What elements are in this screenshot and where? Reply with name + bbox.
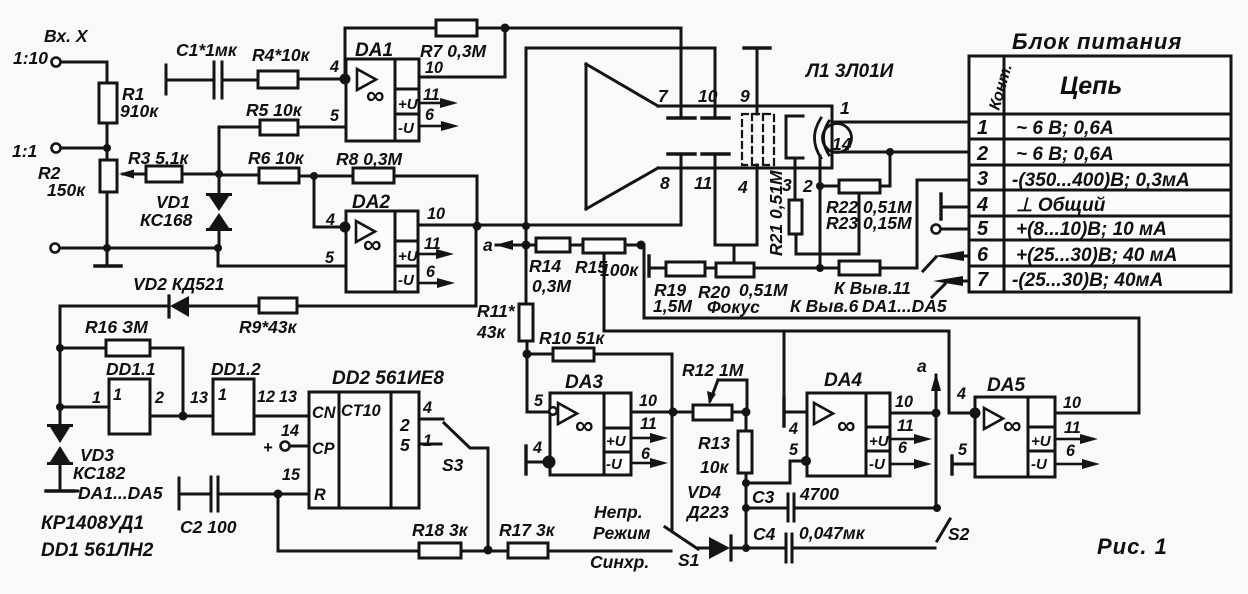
svg-text:Вх. Х: Вх. Х	[44, 26, 89, 46]
svg-text:-U: -U	[1031, 456, 1048, 473]
svg-text:3: 3	[977, 168, 988, 190]
svg-text:10: 10	[1063, 394, 1081, 412]
svg-text:Рис. 1: Рис. 1	[1097, 534, 1168, 559]
svg-text:Л1 3Л01И: Л1 3Л01И	[804, 61, 894, 82]
svg-text:R10 51к: R10 51к	[539, 328, 605, 348]
svg-text:Д223: Д223	[685, 502, 729, 522]
svg-text:10: 10	[639, 392, 657, 410]
svg-text:∞: ∞	[1003, 410, 1022, 440]
svg-text:5: 5	[534, 392, 544, 410]
svg-text:DA3: DA3	[565, 372, 603, 393]
svg-text:+U: +U	[398, 248, 419, 265]
svg-text:14: 14	[281, 422, 299, 440]
svg-text:2: 2	[399, 415, 410, 435]
svg-text:6: 6	[898, 439, 908, 457]
svg-text:13: 13	[190, 389, 208, 407]
svg-text:1: 1	[92, 389, 101, 407]
svg-text:DA2: DA2	[352, 192, 390, 213]
svg-text:43к: 43к	[476, 322, 506, 342]
svg-text:10: 10	[425, 59, 443, 77]
svg-text:1: 1	[977, 117, 988, 139]
svg-text:Цепь: Цепь	[1060, 72, 1122, 100]
svg-text:1:1: 1:1	[12, 141, 37, 161]
svg-text:R8 0,3М: R8 0,3М	[336, 149, 403, 169]
svg-text:DA1...DA5: DA1...DA5	[862, 296, 947, 316]
svg-text:⊥ Общий: ⊥ Общий	[1016, 195, 1106, 216]
svg-text:Режим: Режим	[593, 523, 651, 543]
svg-text:5: 5	[977, 218, 989, 240]
svg-text:11: 11	[423, 86, 440, 104]
svg-text:+(8...10)В; 10 мА: +(8...10)В; 10 мА	[1016, 219, 1167, 240]
svg-text:12: 12	[257, 388, 275, 406]
svg-text:К Выв.6: К Выв.6	[790, 296, 859, 316]
svg-text:R17 3к: R17 3к	[499, 520, 556, 540]
svg-text:5: 5	[330, 107, 340, 125]
svg-text:15: 15	[282, 466, 301, 484]
svg-text:DA1...DA5: DA1...DA5	[78, 483, 163, 503]
svg-text:9: 9	[740, 86, 750, 106]
svg-text:КС168: КС168	[140, 210, 193, 230]
svg-text:R6 10к: R6 10к	[248, 148, 305, 168]
svg-text:150к: 150к	[47, 180, 86, 200]
svg-text:R21 0,51М: R21 0,51М	[766, 170, 786, 256]
svg-text:R11*: R11*	[477, 301, 516, 321]
svg-text:1: 1	[840, 98, 850, 118]
svg-text:R12 1М: R12 1М	[682, 360, 744, 380]
svg-text:R3 5,1к: R3 5,1к	[128, 148, 190, 168]
svg-text:1:10: 1:10	[13, 48, 48, 68]
svg-text:5: 5	[400, 435, 410, 455]
svg-text:CP: CP	[312, 440, 335, 458]
svg-text:R14: R14	[529, 256, 561, 276]
svg-text:10: 10	[895, 393, 913, 411]
svg-text:Блок питания: Блок питания	[1012, 29, 1182, 54]
svg-text:R5 10к: R5 10к	[246, 100, 303, 120]
svg-text:DA5: DA5	[987, 375, 1025, 396]
svg-text:+U: +U	[398, 96, 419, 113]
svg-text:0,047мк: 0,047мк	[799, 523, 866, 543]
svg-text:R7 0,3М: R7 0,3М	[420, 41, 487, 61]
svg-text:7: 7	[977, 269, 989, 291]
svg-text:~ 6 В; 0,6А: ~ 6 В; 0,6А	[1016, 118, 1114, 139]
svg-text:CT10: CT10	[341, 402, 381, 420]
svg-text:2: 2	[154, 389, 164, 407]
svg-text:Фокус: Фокус	[707, 297, 760, 317]
svg-text:5: 5	[789, 441, 799, 459]
svg-text:S1: S1	[678, 550, 699, 570]
svg-text:4: 4	[976, 194, 988, 216]
svg-text:а: а	[917, 356, 927, 376]
svg-text:11: 11	[1064, 419, 1081, 437]
svg-text:Синхр.: Синхр.	[590, 552, 649, 572]
svg-text:11: 11	[424, 235, 441, 253]
svg-text:4700: 4700	[799, 484, 839, 504]
svg-text:VD4: VD4	[687, 482, 721, 502]
svg-text:С1*1мк: С1*1мк	[176, 40, 238, 60]
svg-text:КС182: КС182	[73, 463, 126, 483]
svg-text:10: 10	[698, 86, 718, 106]
svg-text:~ 6 В; 0,6А: ~ 6 В; 0,6А	[1016, 144, 1114, 165]
svg-text:6: 6	[426, 263, 436, 281]
svg-text:11: 11	[640, 415, 657, 433]
svg-text:CN: CN	[312, 404, 336, 422]
svg-text:R18 3к: R18 3к	[412, 520, 469, 540]
svg-text:-(25...30)В; 40мА: -(25...30)В; 40мА	[1012, 270, 1163, 291]
svg-text:11: 11	[897, 417, 914, 435]
svg-text:1: 1	[113, 386, 122, 404]
svg-text:∞: ∞	[575, 410, 594, 440]
svg-text:-U: -U	[398, 272, 415, 289]
svg-text:4: 4	[329, 58, 339, 76]
svg-text:10к: 10к	[700, 457, 729, 477]
svg-text:Непр.: Непр.	[594, 502, 643, 522]
svg-text:1: 1	[218, 386, 227, 404]
svg-text:4: 4	[532, 439, 542, 457]
svg-text:4: 4	[788, 420, 798, 438]
svg-text:4: 4	[737, 177, 748, 197]
svg-text:4: 4	[325, 211, 335, 229]
svg-text:К Выв.11: К Выв.11	[834, 278, 911, 298]
svg-text:1,5М: 1,5М	[653, 296, 692, 316]
svg-text:С3: С3	[752, 487, 775, 507]
svg-text:6: 6	[977, 244, 989, 266]
svg-text:+U: +U	[1031, 433, 1052, 450]
svg-text:КР1408УД1: КР1408УД1	[41, 513, 144, 534]
svg-text:0,3М: 0,3М	[532, 276, 571, 296]
svg-text:DA1: DA1	[355, 40, 393, 61]
svg-text:6: 6	[1066, 442, 1076, 460]
svg-text:5: 5	[958, 441, 968, 459]
svg-text:11: 11	[694, 173, 712, 193]
svg-text:7: 7	[658, 86, 669, 106]
svg-text:а: а	[483, 235, 493, 255]
svg-text:-U: -U	[398, 120, 415, 137]
svg-text:VD1: VD1	[156, 192, 190, 212]
svg-text:14: 14	[832, 134, 852, 154]
svg-text:R9*43к: R9*43к	[239, 317, 298, 337]
svg-text:-U: -U	[869, 456, 886, 473]
svg-text:+: +	[263, 439, 273, 457]
svg-text:R4*10к: R4*10к	[252, 45, 311, 65]
svg-text:R13: R13	[698, 433, 730, 453]
svg-text:С4: С4	[753, 524, 776, 544]
svg-text:DD1.1: DD1.1	[106, 359, 156, 379]
svg-text:-(350...400)В; 0,3мА: -(350...400)В; 0,3мА	[1012, 170, 1190, 191]
svg-text:13: 13	[279, 388, 297, 406]
svg-text:10: 10	[427, 205, 445, 223]
svg-text:8: 8	[660, 173, 670, 193]
svg-text:VD3: VD3	[80, 445, 114, 465]
svg-text:100к: 100к	[600, 260, 639, 280]
svg-text:1: 1	[423, 432, 432, 450]
svg-text:С2 100: С2 100	[180, 517, 237, 537]
svg-text:+U: +U	[869, 433, 890, 450]
svg-text:-U: -U	[606, 456, 623, 473]
svg-text:+(25...30)В; 40 мА: +(25...30)В; 40 мА	[1016, 245, 1177, 266]
svg-text:R: R	[314, 486, 326, 504]
svg-text:S2: S2	[948, 524, 970, 544]
svg-text:S3: S3	[442, 455, 464, 475]
svg-text:VD2 КД521: VD2 КД521	[133, 274, 225, 294]
svg-text:R16 ЗМ: R16 ЗМ	[85, 317, 148, 337]
svg-text:DD1.2: DD1.2	[211, 359, 261, 379]
svg-text:∞: ∞	[837, 410, 856, 440]
svg-text:4: 4	[422, 399, 432, 417]
svg-text:4: 4	[956, 385, 966, 403]
svg-text:910к: 910к	[120, 101, 159, 121]
svg-text:2: 2	[976, 143, 988, 165]
svg-text:DA4: DA4	[824, 370, 862, 391]
svg-text:2: 2	[802, 176, 813, 196]
svg-text:DD1 561ЛН2: DD1 561ЛН2	[41, 540, 154, 561]
svg-text:DD2 561ИЕ8: DD2 561ИЕ8	[332, 368, 444, 389]
svg-text:5: 5	[325, 249, 335, 267]
svg-text:∞: ∞	[366, 80, 385, 110]
svg-text:R23 0,15М: R23 0,15М	[826, 213, 912, 233]
svg-text:∞: ∞	[363, 229, 382, 259]
svg-text:+U: +U	[606, 433, 627, 450]
svg-text:6: 6	[425, 106, 435, 124]
svg-text:6: 6	[641, 445, 651, 463]
